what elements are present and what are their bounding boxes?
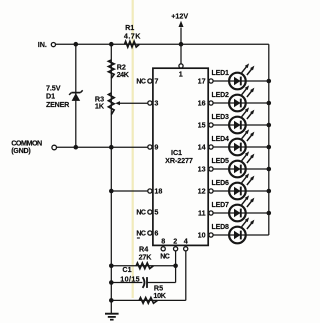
svg-text:9: 9 — [154, 143, 158, 152]
svg-text:5: 5 — [154, 208, 158, 217]
svg-text:(GND): (GND) — [11, 146, 31, 155]
svg-text:12: 12 — [198, 186, 206, 195]
svg-text:IN.: IN. — [38, 40, 47, 49]
svg-text:14: 14 — [198, 142, 206, 151]
svg-text:LED1: LED1 — [212, 70, 230, 77]
svg-text:+12V: +12V — [171, 12, 188, 21]
svg-text:2: 2 — [173, 236, 177, 245]
svg-text:3: 3 — [154, 99, 158, 108]
svg-text:LED8: LED8 — [212, 224, 230, 231]
svg-text:NC: NC — [136, 210, 146, 217]
svg-text:15: 15 — [198, 120, 206, 129]
svg-text:XR-2277: XR-2277 — [165, 156, 193, 165]
svg-text:LED2: LED2 — [212, 92, 230, 99]
svg-text:13: 13 — [198, 164, 206, 173]
svg-text:27K: 27K — [139, 252, 153, 261]
svg-text:11: 11 — [198, 208, 206, 217]
svg-text:1K: 1K — [95, 101, 105, 110]
svg-text:1: 1 — [179, 70, 183, 79]
svg-text:LED4: LED4 — [212, 136, 230, 143]
svg-text:16: 16 — [198, 98, 206, 107]
svg-text:LED6: LED6 — [212, 180, 230, 187]
svg-text:NC: NC — [160, 254, 170, 261]
svg-text:C1: C1 — [122, 265, 131, 274]
svg-text:NC: NC — [136, 79, 146, 86]
svg-text:LED5: LED5 — [212, 158, 230, 165]
svg-text:LED7: LED7 — [212, 202, 230, 209]
svg-text:6: 6 — [154, 229, 158, 238]
svg-text:4.7K: 4.7K — [124, 31, 141, 40]
svg-text:8: 8 — [161, 236, 165, 245]
svg-text:10/15: 10/15 — [120, 275, 140, 284]
svg-text:LED3: LED3 — [212, 114, 230, 121]
svg-text:ZENER: ZENER — [46, 100, 70, 109]
svg-text:7: 7 — [154, 77, 158, 86]
svg-text:NC: NC — [136, 231, 146, 238]
svg-text:10: 10 — [198, 230, 206, 239]
svg-text:17: 17 — [198, 76, 206, 85]
svg-text:24K: 24K — [117, 70, 130, 79]
svg-text:10K: 10K — [153, 291, 166, 300]
svg-text:4: 4 — [184, 236, 188, 245]
svg-text:18: 18 — [154, 187, 162, 196]
